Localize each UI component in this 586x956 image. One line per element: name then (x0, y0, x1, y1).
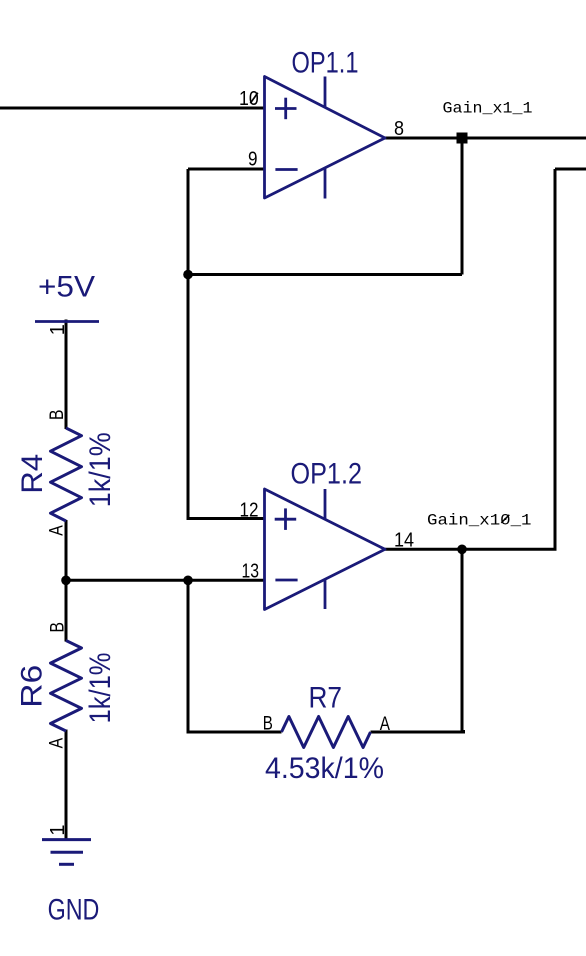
wire: OP1.1 output to right edge (385, 137, 586, 140)
net label Gain_x1_1 (443, 100, 533, 118)
ground symbol GND bars (42, 840, 91, 865)
svg-text:1k/1%: 1k/1% (84, 432, 117, 507)
label R7 (309, 682, 343, 715)
op-amp OP1.2 V- power stub (324, 579, 327, 610)
wire: vertical x=462 output node down to R7 (461, 549, 464, 732)
label OP1.1 (292, 46, 359, 79)
pin name B of R4 (rotated) (46, 410, 68, 421)
wire: feedback horizontal y=274.5 (188, 273, 462, 276)
pin name A of R7 (380, 713, 390, 735)
svg-text:B: B (46, 410, 68, 421)
junction square at OP1.1 output (457, 133, 468, 144)
pin number 10 (239, 88, 259, 110)
junction dot feedback node (183, 270, 193, 280)
op-amp OP1.2 plus input symbol (275, 508, 297, 530)
svg-text:Gain_x1_1: Gain_x1_1 (443, 100, 533, 118)
svg-text:9: 9 (248, 149, 258, 171)
wire: right edge horizontal y=169 (555, 168, 586, 171)
junction dot divider mid node (61, 576, 71, 586)
svg-text:1: 1 (47, 324, 69, 335)
op-amp OP1.2 V+ power stub (324, 489, 327, 520)
resistor R7 zigzag (282, 717, 371, 748)
svg-text:GND: GND (48, 893, 100, 926)
value 1k/1% for R6 (rotated) (84, 653, 117, 724)
resistor R4 zigzag (51, 428, 82, 521)
op-amp OP1.1 minus input symbol (275, 168, 297, 171)
wire: R4 bottom through node to R6 top (65, 520, 68, 642)
pin number 14 (394, 530, 414, 552)
wire: input to pin 10 (0, 107, 265, 110)
pin name B of R7 (263, 713, 273, 735)
svg-text:14: 14 (394, 530, 414, 552)
label R6 (rotated) (15, 665, 48, 708)
label +5V (38, 270, 95, 303)
pin name B of R6 (rotated) (47, 622, 69, 633)
svg-text:12: 12 (240, 500, 259, 522)
op-amp U1 OP1.1 triangle (265, 77, 386, 199)
svg-text:R4: R4 (16, 454, 49, 494)
wire: vertical from output junction down to feedback (461, 138, 464, 275)
op-amp OP1.1 V- power stub (324, 168, 327, 199)
pin number 12 (240, 500, 259, 522)
power pin number 1 (rotated) (47, 324, 69, 335)
wire: vertical x=555 down to OP1.2 output net (554, 169, 557, 549)
pin name A of R6 (rotated) (46, 738, 68, 749)
label R4 (rotated) (16, 454, 49, 494)
wire: pin9 down to pin 12 (vertical x=188 and horizontal to pin 12) (188, 169, 265, 519)
svg-text:B: B (263, 713, 273, 735)
wire: +5V bar to R4 top (65, 320, 68, 430)
svg-text:R7: R7 (309, 682, 343, 715)
op-amp U2 OP1.2 triangle (265, 489, 386, 610)
svg-text:1k/1%: 1k/1% (84, 653, 117, 724)
pin number 13 (242, 561, 260, 583)
value 4.53k/1% for R7 (265, 752, 384, 785)
svg-text:Gain_x10_1: Gain_x10_1 (427, 511, 532, 529)
svg-text:OP1.1: OP1.1 (292, 46, 359, 79)
power +5V bar symbol (35, 320, 99, 323)
wire: R7 left lead from x=188 (188, 580, 282, 732)
op-amp OP1.2 minus input symbol (275, 579, 297, 582)
wire: OP1.2 output horizontal (385, 548, 557, 551)
label GND (48, 893, 100, 926)
svg-text:1: 1 (47, 824, 69, 835)
svg-text:R6: R6 (15, 665, 48, 708)
resistor R6 zigzag (51, 641, 82, 732)
value 1k/1% for R4 (rotated) (84, 432, 117, 507)
junction dot pin13 branch node (183, 576, 193, 586)
pin number 8 (394, 118, 404, 140)
ground pin number 1 (rotated) (47, 824, 69, 835)
svg-text:4.53k/1%: 4.53k/1% (265, 752, 384, 785)
svg-text:8: 8 (394, 118, 404, 140)
svg-text:OP1.2: OP1.2 (291, 458, 363, 491)
label OP1.2 (291, 458, 363, 491)
svg-text:B: B (47, 622, 69, 633)
wire: R6 bottom to GND (65, 730, 68, 840)
wire: pin 13 horizontal from divider (66, 579, 265, 582)
svg-text:A: A (380, 713, 390, 735)
wire: pin 9 horizontal (188, 168, 265, 171)
svg-text:A: A (46, 738, 68, 749)
svg-text:A: A (46, 525, 68, 536)
pin number 9 (248, 149, 258, 171)
pin name A of R4 (rotated) (46, 525, 68, 536)
net label Gain_x10_1 (427, 511, 532, 529)
op-amp OP1.1 V+ power stub (324, 77, 327, 108)
svg-text:+5V: +5V (38, 270, 95, 303)
junction dot OP1.2 output node (457, 545, 467, 555)
wire: R7 right lead (371, 730, 464, 732)
svg-text:10: 10 (239, 88, 259, 110)
op-amp OP1.1 plus input symbol (275, 98, 297, 120)
svg-text:13: 13 (242, 561, 260, 583)
